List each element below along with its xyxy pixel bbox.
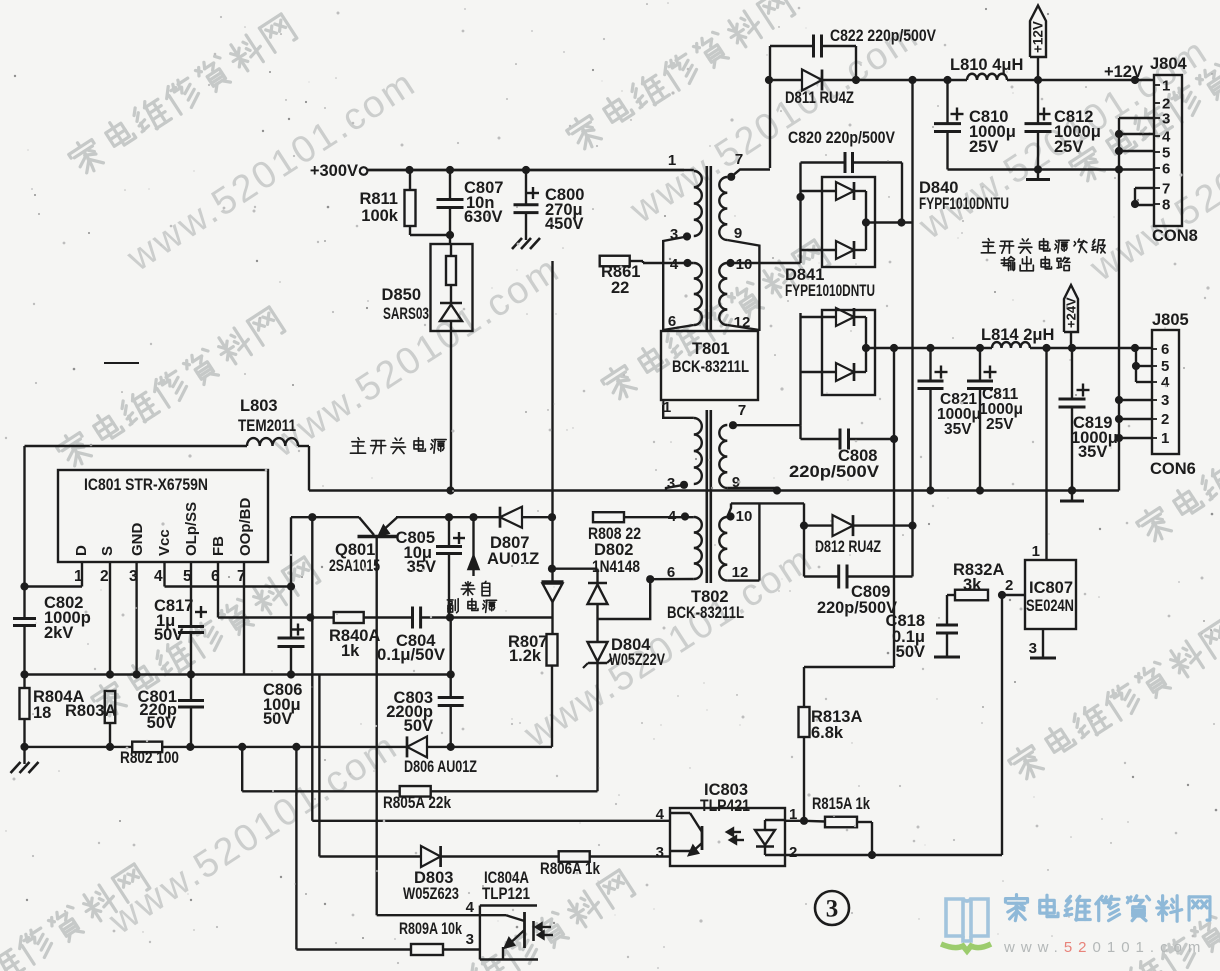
svg-text:8: 8 [1162, 197, 1170, 214]
svg-text:25V: 25V [986, 416, 1014, 433]
svg-text:10: 10 [736, 508, 753, 525]
svg-text:L810 4μH: L810 4μH [950, 56, 1023, 74]
svg-text:C822 220p/500V: C822 220p/500V [830, 27, 936, 45]
svg-text:1k: 1k [341, 642, 360, 660]
svg-text:50V: 50V [154, 626, 183, 644]
svg-text:D802: D802 [594, 541, 633, 559]
svg-text:3k: 3k [963, 576, 982, 594]
svg-text:IC801 STR-X6759N: IC801 STR-X6759N [84, 476, 208, 494]
svg-text:5: 5 [1162, 145, 1170, 162]
svg-text:W05Z22V: W05Z22V [609, 651, 665, 669]
svg-text:GND: GND [129, 523, 146, 557]
svg-text:SE024N: SE024N [1026, 597, 1074, 615]
svg-text:FYPF1010DNTU: FYPF1010DNTU [919, 195, 1009, 213]
svg-text:35V: 35V [944, 421, 972, 438]
svg-text:3: 3 [466, 931, 474, 948]
svg-text:4: 4 [670, 256, 679, 273]
svg-text:25V: 25V [969, 138, 998, 156]
svg-text:R811: R811 [359, 190, 398, 208]
svg-text:3: 3 [1029, 640, 1037, 657]
svg-text:R805A 22k: R805A 22k [383, 794, 452, 812]
svg-text:R815A 1k: R815A 1k [812, 795, 871, 813]
svg-text:Vcc: Vcc [156, 529, 173, 556]
svg-text:R806A 1k: R806A 1k [540, 860, 601, 878]
svg-text:630V: 630V [464, 208, 503, 226]
svg-text:1: 1 [1162, 78, 1170, 95]
svg-text:L814 2μH: L814 2μH [981, 326, 1054, 344]
svg-text:25V: 25V [1054, 138, 1083, 156]
svg-text:7: 7 [1162, 181, 1170, 198]
svg-text:BCK-83211L: BCK-83211L [672, 358, 749, 376]
svg-text:50V: 50V [263, 710, 292, 728]
svg-text:S: S [99, 546, 116, 556]
svg-text:6: 6 [1161, 341, 1169, 358]
svg-text:+12V: +12V [1104, 63, 1143, 81]
svg-text:IC807: IC807 [1029, 579, 1073, 597]
svg-text:4: 4 [1162, 129, 1171, 146]
svg-text:R802 100: R802 100 [120, 749, 179, 767]
svg-text:4: 4 [466, 899, 475, 916]
svg-text:OOp/BD: OOp/BD [237, 498, 254, 556]
svg-text:D806 AU01Z: D806 AU01Z [404, 758, 477, 776]
svg-text:FB: FB [210, 536, 227, 556]
svg-text:6.8k: 6.8k [811, 724, 844, 742]
svg-text:2: 2 [1161, 411, 1169, 428]
svg-text:3: 3 [826, 896, 839, 923]
svg-text:50V: 50V [147, 714, 176, 732]
svg-text:2: 2 [789, 844, 797, 861]
svg-text:SARS03: SARS03 [383, 305, 429, 323]
svg-text:AU01Z: AU01Z [487, 550, 539, 568]
svg-text:D850: D850 [382, 286, 421, 304]
svg-text:1N4148: 1N4148 [592, 558, 640, 576]
svg-text:TLP121: TLP121 [482, 885, 530, 903]
svg-text:220p/500V: 220p/500V [789, 463, 879, 481]
svg-text:3: 3 [656, 844, 664, 861]
svg-text:TEM2011: TEM2011 [238, 417, 296, 435]
svg-text:CON8: CON8 [1152, 227, 1198, 245]
svg-text:35V: 35V [407, 558, 436, 576]
svg-text:J804: J804 [1150, 55, 1188, 73]
svg-text:2kV: 2kV [44, 624, 73, 642]
svg-text:TLP421: TLP421 [700, 797, 750, 815]
svg-text:35V: 35V [1078, 443, 1107, 461]
svg-text:1: 1 [74, 568, 83, 585]
svg-text:CON6: CON6 [1150, 460, 1196, 478]
svg-text:6: 6 [668, 313, 676, 330]
svg-text:4: 4 [668, 508, 677, 525]
svg-text:W05Z623: W05Z623 [403, 885, 459, 903]
svg-text:12: 12 [732, 564, 749, 581]
svg-text:50V: 50V [404, 717, 433, 735]
svg-text:T801: T801 [692, 340, 730, 358]
svg-text:FYPE1010DNTU: FYPE1010DNTU [785, 282, 875, 300]
svg-text:2: 2 [1005, 577, 1013, 594]
svg-text:1: 1 [663, 399, 671, 416]
svg-text:6: 6 [1162, 161, 1170, 178]
svg-text:50V: 50V [896, 643, 925, 661]
svg-text:18: 18 [33, 704, 51, 722]
svg-text:C820 220p/500V: C820 220p/500V [788, 129, 895, 147]
svg-text:1.2k: 1.2k [509, 647, 542, 665]
svg-text:J805: J805 [1152, 311, 1189, 329]
svg-text:R803A: R803A [65, 702, 116, 720]
svg-text:2: 2 [100, 568, 109, 585]
svg-text:12: 12 [734, 314, 751, 331]
svg-text:D811 RU4Z: D811 RU4Z [785, 89, 854, 107]
svg-text:R809A 10k: R809A 10k [399, 920, 463, 938]
svg-text:L803: L803 [240, 397, 278, 415]
svg-text:0.1μ/50V: 0.1μ/50V [377, 646, 445, 664]
svg-text:100k: 100k [361, 207, 399, 225]
svg-text:OLp/SS: OLp/SS [183, 502, 200, 556]
svg-text:4: 4 [656, 806, 665, 823]
svg-text:+24V: +24V [1064, 297, 1079, 328]
svg-text:5: 5 [1161, 358, 1169, 375]
svg-text:4: 4 [154, 568, 163, 585]
svg-text:1: 1 [1161, 430, 1169, 447]
svg-text:450V: 450V [545, 215, 584, 233]
svg-text:D812 RU4Z: D812 RU4Z [815, 538, 881, 556]
svg-text:7: 7 [735, 151, 743, 168]
svg-text:1: 1 [1032, 543, 1040, 560]
svg-text:1: 1 [668, 152, 676, 169]
svg-text:2SA1015: 2SA1015 [329, 557, 380, 575]
svg-text:BCK-83211L: BCK-83211L [667, 604, 744, 622]
svg-text:10: 10 [736, 256, 753, 273]
svg-text:3: 3 [1161, 392, 1169, 409]
svg-text:3: 3 [1162, 111, 1170, 128]
svg-text:4: 4 [1161, 374, 1170, 391]
svg-text:+12V: +12V [1031, 21, 1046, 53]
svg-text:www.520101.com: www.520101.com [1003, 939, 1206, 956]
svg-text:3: 3 [667, 475, 675, 492]
svg-text:7: 7 [738, 402, 746, 419]
svg-text:9: 9 [734, 225, 742, 242]
svg-text:22: 22 [611, 279, 629, 297]
svg-text:+300V: +300V [310, 162, 358, 180]
svg-text:6: 6 [667, 564, 675, 581]
svg-text:D: D [73, 545, 90, 556]
